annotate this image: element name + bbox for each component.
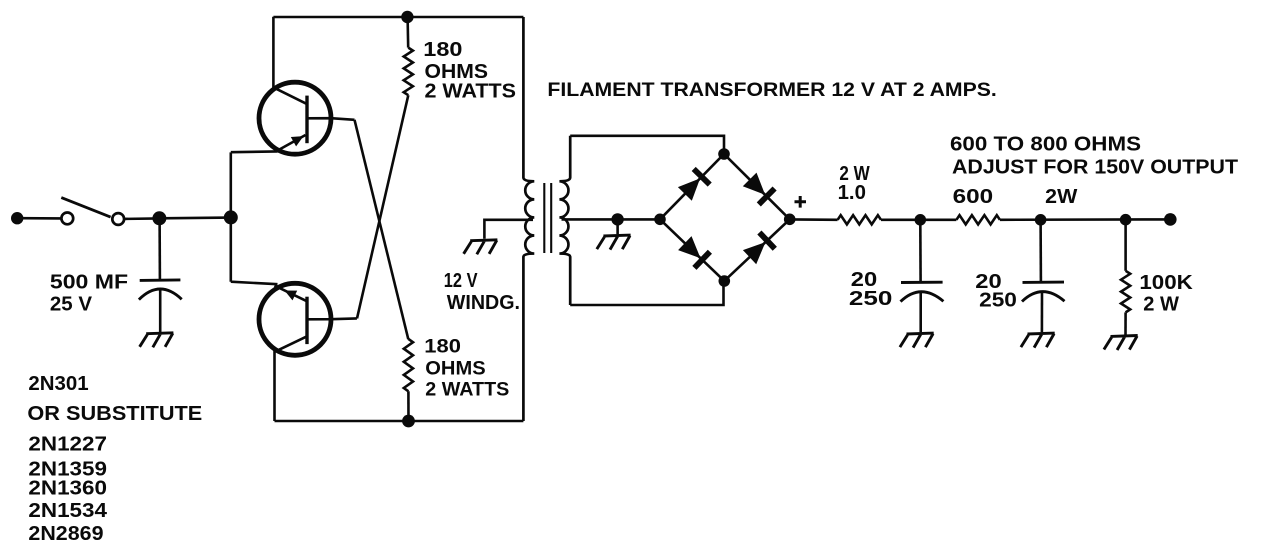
secondary center-tap wire: [562, 218, 661, 221]
wire node A to node B: [159, 216, 230, 219]
svg-text:2N1360: 2N1360: [28, 477, 107, 499]
output rail wire: [1000, 218, 1170, 221]
svg-text:600 TO 800 OHMS: 600 TO 800 OHMS: [950, 133, 1141, 156]
resistor R4 600 ohms: [956, 215, 1000, 224]
transformer T1 secondary winding: [559, 136, 570, 305]
top rail junction node: [401, 11, 413, 23]
svg-text:2 WATTS: 2 WATTS: [425, 81, 517, 103]
svg-text:1.0: 1.0: [838, 182, 866, 204]
R1 top lead: [406, 17, 409, 48]
switch S1: [61, 198, 124, 225]
svg-text:600: 600: [953, 186, 994, 208]
svg-text:180: 180: [423, 39, 462, 61]
bottom rail junction node: [402, 415, 415, 428]
svg-text:FILAMENT TRANSFORMER 12 V AT 2: FILAMENT TRANSFORMER 12 V AT 2 AMPS.: [547, 79, 996, 101]
transistor Q2 (2N301 lower): [259, 283, 331, 355]
resistor R2 180 ohms 2 watts: [404, 339, 413, 391]
bottom rail wire: [275, 420, 524, 423]
Q2 collector wire: [273, 351, 276, 421]
svg-text:25 V: 25 V: [50, 294, 93, 316]
bridge left node: [654, 214, 666, 226]
ground below C1: [140, 333, 174, 348]
svg-text:180: 180: [424, 337, 461, 358]
wire input to switch: [22, 217, 61, 220]
svg-text:OR SUBSTITUTE: OR SUBSTITUTE: [27, 403, 202, 425]
primary tap wire: [484, 220, 533, 239]
capacitor C1 top lead: [158, 218, 161, 279]
ground at primary tap: [464, 240, 498, 255]
node E junction: [1120, 214, 1132, 226]
svg-text:2 W: 2 W: [1143, 294, 1179, 316]
svg-text:500 MF: 500 MF: [50, 272, 128, 294]
center-tap junction node: [611, 213, 623, 225]
Q1 base lead: [307, 118, 355, 120]
emitter bus wires: [231, 151, 278, 284]
svg-text:WINDG.: WINDG.: [447, 292, 520, 314]
ground below R5: [1104, 336, 1138, 351]
node A junction: [152, 211, 166, 225]
ground at center tap: [597, 235, 631, 250]
bridge right node (+): [784, 214, 796, 226]
node C junction: [915, 214, 927, 226]
svg-text:2N301: 2N301: [28, 373, 88, 395]
wire secondary top to bridge: [570, 136, 724, 154]
node B junction: [224, 210, 238, 224]
Q1 collector wire: [272, 17, 275, 89]
svg-text:2N1534: 2N1534: [28, 500, 108, 522]
svg-text:OHMS: OHMS: [425, 359, 485, 380]
svg-text:12 V: 12 V: [444, 270, 478, 292]
wire bridge to R3: [790, 218, 838, 221]
ground below C2: [900, 333, 934, 348]
wire R3 to R4: [881, 219, 956, 222]
capacitor C2 20MF 250V: [901, 220, 944, 332]
input terminal: [11, 212, 23, 224]
svg-text:2N2869: 2N2869: [28, 523, 103, 545]
svg-text:2 WATTS: 2 WATTS: [425, 379, 509, 400]
cross-coupling wire Q1 base to R2: [355, 120, 409, 339]
capacitor C3 20MF 250V: [1022, 220, 1065, 332]
capacitor C1 500MF: [139, 280, 182, 332]
top rail wire: [273, 16, 523, 19]
bridge top node: [718, 148, 730, 160]
svg-text:2N1227: 2N1227: [28, 433, 107, 455]
transformer T1 core: [544, 183, 551, 253]
R2 bottom lead: [407, 391, 410, 421]
transistor Q1 (2N301 upper): [259, 82, 331, 154]
transformer T1 primary winding (12V): [523, 17, 534, 421]
bridge rectifier frame: [660, 154, 790, 281]
Q2 base lead: [307, 317, 357, 320]
diode D1 (left-top): [678, 169, 710, 201]
ground below C3: [1021, 333, 1055, 348]
R5 top lead: [1124, 220, 1127, 271]
wire secondary bottom to bridge: [570, 281, 723, 305]
cross-coupling wire R1 to Q2 base: [357, 95, 408, 318]
diode D4 (bottom-right): [743, 233, 775, 265]
node D junction: [1035, 214, 1047, 226]
svg-text:250: 250: [979, 290, 1017, 312]
svg-text:ADJUST FOR 150V OUTPUT: ADJUST FOR 150V OUTPUT: [952, 155, 1238, 178]
diode D2 (top-right): [743, 173, 775, 205]
svg-text:2W: 2W: [1045, 186, 1077, 208]
bridge bottom node: [719, 275, 731, 287]
plus sign output polarity: [795, 196, 807, 208]
svg-text:250: 250: [849, 288, 893, 310]
wire switch to node A: [124, 217, 159, 220]
svg-text:100K: 100K: [1139, 272, 1193, 294]
diode D3 (left-bottom): [678, 236, 710, 268]
output terminal: [1164, 213, 1177, 226]
center-tap ground lead: [616, 219, 619, 234]
R5 bottom lead: [1124, 312, 1127, 334]
resistor R3 1.0 ohm 2W: [838, 215, 881, 224]
